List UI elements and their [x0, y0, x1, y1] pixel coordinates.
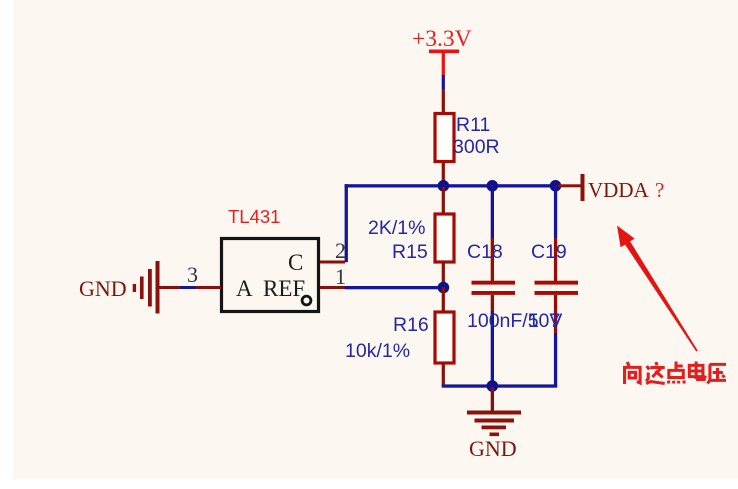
C18 designator label [467, 241, 503, 263]
svg-text:VDDA: VDDA [588, 178, 649, 202]
svg-text:C19: C19 [531, 241, 567, 263]
svg-text:TL431: TL431 [228, 206, 280, 227]
svg-text:GND: GND [469, 436, 517, 461]
ground GND left symbol bars [133, 261, 160, 314]
wire +3.3V to R11 (red segment) [442, 51, 445, 75]
power +3.3V bar symbol [429, 50, 459, 54]
wire pin1 to R15/R16 node [345, 286, 445, 289]
这 [646, 362, 665, 384]
capacitor C19 plates [535, 281, 579, 295]
TL431 part label [228, 206, 280, 227]
R15 value label 2K/1% [368, 217, 425, 239]
resistor R16 [435, 312, 454, 363]
pin 2 stub [320, 261, 345, 264]
wire mid node to R16 [442, 287, 445, 312]
svg-text:3: 3 [187, 262, 198, 287]
capacitor C19 lower lead blue [554, 333, 557, 386]
svg-text:+3.3V: +3.3V [412, 26, 472, 52]
wire node to GND symbol [491, 387, 494, 412]
R15 designator label [392, 241, 428, 263]
压 [707, 364, 726, 383]
电 [689, 362, 705, 380]
wire vertical drop to pin 2 [345, 184, 348, 262]
wire segment dark red to R11 [442, 89, 445, 113]
GND left label [79, 276, 127, 301]
svg-text:C: C [288, 250, 303, 275]
svg-text:1: 1 [528, 310, 539, 332]
ground GND bottom symbol bars [467, 411, 521, 437]
junction node at C19 top [550, 180, 562, 192]
wire stub to VDDA port [558, 184, 581, 187]
annotation arrow [617, 226, 698, 352]
svg-text:R15: R15 [392, 241, 428, 263]
pin 3 number [187, 262, 198, 287]
wire R11 to top node [442, 163, 445, 186]
问 [625, 362, 641, 384]
junction node at C18 top [487, 180, 499, 192]
svg-text:GND: GND [79, 276, 127, 301]
svg-text:10k/1%: 10k/1% [345, 340, 410, 362]
svg-text:R11: R11 [456, 114, 490, 136]
bottom horizontal wire [442, 384, 558, 387]
C19 designator label [531, 241, 567, 263]
R11 value label 300R [453, 136, 500, 158]
capacitor C19 upper lead blue [554, 185, 557, 238]
svg-text:2K/1%: 2K/1% [368, 217, 425, 239]
capacitor C18 plates [472, 281, 516, 295]
GND bottom label [469, 436, 517, 461]
svg-text:A: A [236, 276, 253, 301]
power +3.3V label [412, 26, 472, 52]
capacitor C19 upper lead red [554, 238, 557, 282]
C18 value label 100nF/50V [467, 310, 562, 332]
junction node bottom GND [487, 380, 499, 392]
capacitor C18 upper lead blue [491, 185, 494, 238]
junction node R15/R16/pin1 [438, 282, 450, 294]
pin 2 number [335, 238, 346, 263]
R16 value label 10k/1% [345, 340, 410, 362]
点 [668, 362, 684, 384]
pin 1 stub [320, 286, 345, 289]
svg-text:7: 7 [550, 310, 561, 332]
pin 3 wire red to body [196, 286, 221, 289]
pin C text [288, 250, 303, 275]
wire R15 to mid node [442, 262, 445, 287]
svg-text:C18: C18 [467, 241, 503, 263]
pin 3 wire blue segment [180, 286, 196, 289]
svg-text:2: 2 [335, 238, 346, 263]
REF dot marker [302, 296, 311, 305]
top horizontal wire (node VDDA bus) [345, 184, 558, 187]
pin 3 wire red left [158, 286, 180, 289]
svg-text:300R: 300R [453, 136, 500, 158]
capacitor C19 lower lead red [554, 295, 557, 333]
svg-text:1: 1 [335, 264, 346, 289]
op-amp U? TL431 body [222, 239, 319, 312]
capacitor C18 lower lead red [491, 295, 494, 311]
pin 1 number [335, 264, 346, 289]
R11 designator label [456, 114, 490, 136]
annotation Chinese text 问这点电压 [625, 362, 726, 385]
R16 designator label [393, 314, 429, 336]
pin A text [236, 276, 253, 301]
question mark annotation [655, 178, 664, 202]
svg-text:REF: REF [263, 276, 305, 301]
junction node at R11/R15 [438, 180, 450, 192]
wire top node to R15 [442, 187, 445, 214]
VDDA port bar [581, 174, 585, 201]
wire R16 to bottom wire [442, 363, 445, 386]
resistor R15 [435, 214, 454, 262]
C19 overlapping value label [528, 310, 560, 332]
pin REF text [263, 276, 305, 301]
wire segment blue [442, 75, 445, 89]
capacitor C18 upper lead red [491, 238, 494, 282]
svg-text:100nF/50V: 100nF/50V [467, 310, 562, 332]
VDDA net label [588, 178, 649, 202]
capacitor C18 lower lead blue [491, 311, 494, 386]
resistor R11 [435, 114, 454, 162]
svg-text:R16: R16 [393, 314, 429, 336]
svg-text:?: ? [655, 178, 664, 202]
